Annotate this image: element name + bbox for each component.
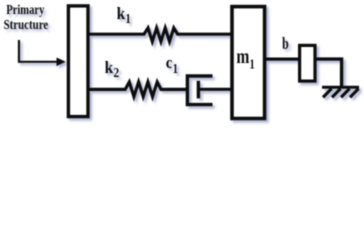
svg-text:Primary: Primary bbox=[6, 3, 44, 18]
svg-text:k: k bbox=[105, 58, 114, 77]
svg-text:b: b bbox=[282, 34, 289, 53]
svg-text:k: k bbox=[117, 4, 126, 23]
svg-text:2: 2 bbox=[113, 66, 119, 81]
svg-text:1: 1 bbox=[125, 12, 130, 27]
svg-text:m: m bbox=[236, 46, 249, 68]
svg-text:1: 1 bbox=[250, 57, 255, 72]
svg-text:Structure: Structure bbox=[4, 18, 49, 33]
svg-text:1: 1 bbox=[173, 62, 179, 77]
